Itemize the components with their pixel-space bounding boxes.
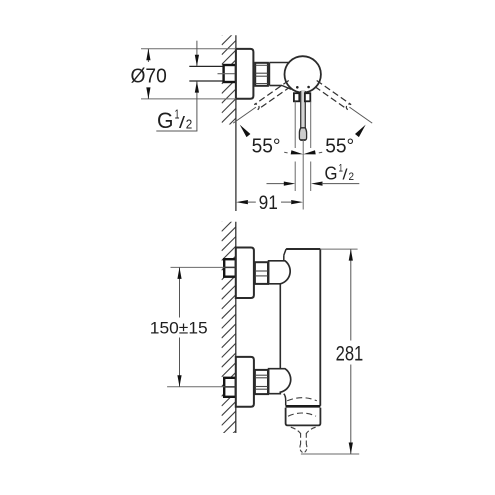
svg-text:55°: 55° bbox=[252, 136, 281, 158]
svg-text:91: 91 bbox=[259, 193, 278, 214]
svg-text:Ø70: Ø70 bbox=[131, 66, 167, 88]
svg-text:55°: 55° bbox=[325, 136, 354, 158]
svg-text:G: G bbox=[325, 164, 338, 184]
svg-text:2: 2 bbox=[349, 171, 355, 183]
svg-text:281: 281 bbox=[336, 342, 364, 366]
svg-text:G: G bbox=[157, 108, 174, 133]
svg-text:2: 2 bbox=[186, 117, 193, 132]
svg-text:/: / bbox=[179, 113, 185, 132]
svg-text:150±15: 150±15 bbox=[150, 319, 208, 338]
